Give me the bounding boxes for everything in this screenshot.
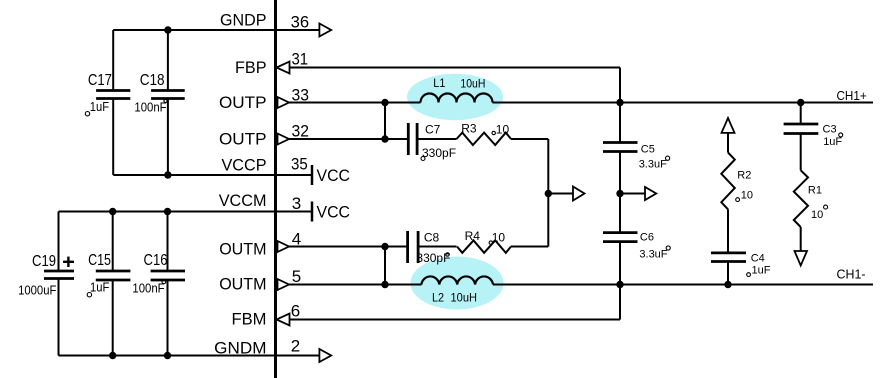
svg-text:C18: C18 — [140, 72, 165, 89]
svg-text:3.3uF: 3.3uF — [639, 249, 667, 261]
svg-text:330pF: 330pF — [422, 146, 456, 160]
svg-text:C8: C8 — [424, 230, 440, 244]
svg-text:31: 31 — [292, 49, 309, 68]
svg-text:C5: C5 — [641, 144, 655, 156]
svg-text:10: 10 — [496, 122, 510, 136]
svg-text:FBP: FBP — [235, 58, 267, 77]
svg-text:VCCM: VCCM — [219, 191, 267, 210]
svg-text:R1: R1 — [808, 185, 822, 197]
svg-text:VCC: VCC — [317, 166, 351, 185]
svg-text:1uF: 1uF — [752, 264, 771, 276]
svg-text:10uH: 10uH — [451, 290, 478, 304]
svg-text:R4: R4 — [465, 229, 481, 243]
svg-text:5: 5 — [292, 267, 301, 286]
svg-text:OUTM: OUTM — [219, 239, 266, 258]
svg-text:R3: R3 — [461, 122, 477, 136]
svg-text:100nF: 100nF — [132, 281, 165, 295]
svg-text:35: 35 — [291, 155, 308, 174]
svg-text:6: 6 — [291, 302, 300, 321]
svg-text:1000uF: 1000uF — [18, 283, 57, 297]
svg-text:3.3uF: 3.3uF — [639, 158, 667, 170]
svg-text:33: 33 — [292, 86, 310, 105]
svg-text:36: 36 — [291, 13, 310, 32]
svg-text:10: 10 — [741, 190, 753, 202]
svg-text:2: 2 — [291, 337, 300, 356]
svg-text:C4: C4 — [751, 253, 765, 265]
svg-text:C3: C3 — [823, 124, 837, 136]
svg-text:C15: C15 — [88, 252, 111, 269]
svg-text:VCC: VCC — [317, 203, 351, 222]
svg-text:CH1-: CH1- — [837, 268, 866, 282]
svg-text:32: 32 — [292, 122, 310, 141]
svg-text:10uH: 10uH — [460, 77, 485, 91]
svg-text:FBM: FBM — [232, 309, 267, 328]
svg-text:CH1+: CH1+ — [837, 89, 867, 103]
svg-text:330pF: 330pF — [416, 251, 450, 265]
svg-text:1uF: 1uF — [90, 280, 110, 294]
svg-text:OUTP: OUTP — [219, 93, 267, 112]
svg-text:VCCP: VCCP — [222, 156, 267, 175]
svg-text:L2: L2 — [432, 290, 444, 304]
svg-text:C19: C19 — [32, 253, 56, 270]
svg-text:3: 3 — [292, 194, 301, 213]
svg-text:100nF: 100nF — [134, 101, 167, 115]
svg-text:GNDM: GNDM — [214, 339, 266, 358]
svg-text:C17: C17 — [88, 72, 112, 89]
svg-text:10: 10 — [492, 230, 506, 244]
svg-text:OUTP: OUTP — [219, 130, 267, 149]
svg-text:4: 4 — [292, 230, 301, 249]
svg-text:L1: L1 — [433, 76, 445, 90]
svg-text:C7: C7 — [425, 123, 441, 137]
svg-text:OUTM: OUTM — [219, 275, 266, 294]
svg-text:1uF: 1uF — [823, 136, 842, 148]
svg-text:GNDP: GNDP — [220, 10, 267, 29]
svg-text:1uF: 1uF — [90, 100, 110, 114]
svg-text:10: 10 — [811, 209, 823, 221]
svg-text:R2: R2 — [737, 170, 751, 182]
svg-text:C6: C6 — [640, 232, 654, 244]
svg-text:C16: C16 — [144, 252, 168, 269]
